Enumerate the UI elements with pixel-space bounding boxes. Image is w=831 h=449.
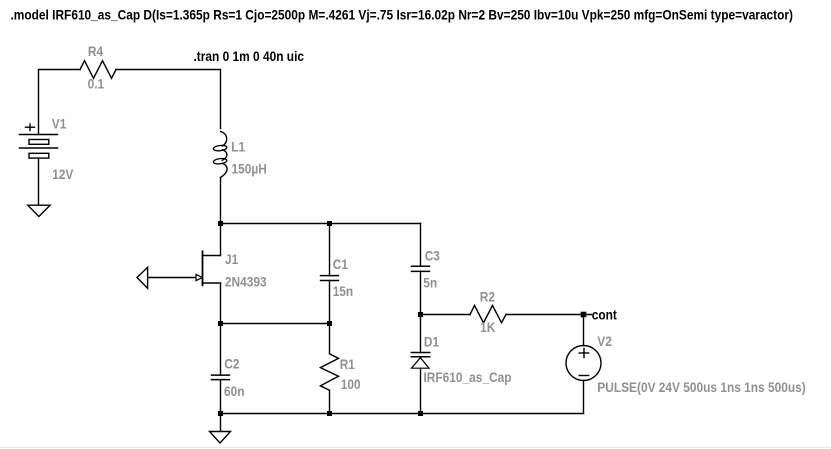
svg-text:150µH: 150µH: [232, 160, 267, 176]
window bottom edge line: [0, 447, 831, 449]
svg-text:100: 100: [341, 376, 361, 392]
wire source node to C1 bottom node: [221, 323, 330, 325]
wire C1 bottom lead: [329, 281, 331, 324]
node junction source / C2: [218, 321, 223, 326]
svg-text:C2: C2: [224, 356, 239, 372]
node junction ground rail R1: [327, 411, 332, 416]
wire R1 bottom lead: [329, 390, 331, 413]
svg-text:2N4393: 2N4393: [225, 274, 267, 290]
svg-text:IRF610_as_Cap: IRF610_as_Cap: [424, 369, 512, 385]
voltage source V2: [566, 346, 601, 381]
node junction C1 top: [327, 221, 332, 226]
svg-text:12V: 12V: [52, 166, 74, 182]
wire top rail left V1 to R4: [39, 69, 81, 71]
svg-text:cont: cont: [592, 306, 617, 322]
resistor R4: [80, 61, 116, 79]
wire V2 top lead: [583, 315, 585, 346]
capacitor C3: [411, 266, 430, 271]
wire top rail right R4 to corner and down to L1: [116, 70, 221, 129]
svg-text:15n: 15n: [333, 283, 354, 299]
svg-text:R2: R2: [480, 289, 495, 305]
inductor L1: [213, 132, 227, 178]
resistor R2: [470, 305, 506, 322]
resistor R1: [320, 354, 338, 391]
svg-text:C1: C1: [333, 256, 348, 272]
gate input arrow marker: [137, 267, 148, 288]
node cont port square: [581, 312, 587, 318]
svg-text:.model IRF610_as_Cap D(Is=1.36: .model IRF610_as_Cap D(Is=1.365p Rs=1 Cj…: [11, 7, 794, 23]
node junction ground rail D1: [418, 411, 423, 416]
svg-text:J1: J1: [225, 251, 238, 267]
wire drain lead down from node A: [220, 224, 222, 256]
wire node B to R2: [421, 314, 471, 316]
svg-text:5n: 5n: [423, 274, 437, 290]
node junction B at C3 bottom / R2 / D1: [418, 312, 423, 317]
wire L1 bottom to node A: [220, 178, 222, 224]
transistor J1 N-JFET: [148, 251, 221, 285]
wire V1 minus lead to ground: [38, 158, 40, 205]
node junction A at L1 bottom: [218, 221, 223, 226]
wire V1 plus lead: [38, 70, 40, 135]
svg-text:1K: 1K: [480, 319, 495, 335]
capacitor C1: [320, 276, 339, 281]
wire R2 to node cont: [506, 314, 592, 316]
svg-text:C3: C3: [425, 247, 440, 263]
svg-text:0.1: 0.1: [88, 76, 105, 92]
node junction ground rail C2: [218, 411, 223, 416]
ground stub bottom: [220, 414, 222, 432]
node junction C1 bottom / R1: [327, 321, 332, 326]
svg-text:60n: 60n: [224, 383, 245, 399]
ground symbol bottom: [210, 432, 231, 444]
ground under V1: [28, 205, 50, 216]
wire V2 bottom lead: [583, 381, 585, 414]
svg-text:D1: D1: [424, 333, 439, 349]
svg-text:L1: L1: [231, 139, 245, 155]
wire C3 top lead: [420, 224, 422, 267]
svg-text:R1: R1: [340, 356, 355, 372]
svg-text:R4: R4: [88, 43, 103, 59]
svg-text:V2: V2: [597, 333, 612, 349]
wire D1 top lead: [420, 315, 422, 353]
wire R1 top lead: [329, 324, 331, 354]
wire source down through C2 node: [220, 283, 222, 375]
svg-text:V1: V1: [52, 115, 67, 131]
capacitor C2: [211, 375, 230, 380]
wire C3 bottom lead to node B: [420, 271, 422, 314]
wire node A to C3 corner top rail: [221, 223, 421, 225]
wire C1 top lead: [329, 224, 331, 276]
wire D1 bottom lead: [420, 368, 422, 413]
voltage source V1 battery: [20, 124, 58, 158]
svg-text:.tran 0 1m 0 40n uic: .tran 0 1m 0 40n uic: [194, 48, 305, 64]
svg-text:PULSE(0V 24V 500us 1ns 1ns 500: PULSE(0V 24V 500us 1ns 1ns 500us): [597, 379, 805, 395]
wire ground rail bottom: [221, 413, 584, 415]
wire C2 bottom to ground rail: [220, 380, 222, 414]
diode D1 varactor: [411, 353, 431, 369]
